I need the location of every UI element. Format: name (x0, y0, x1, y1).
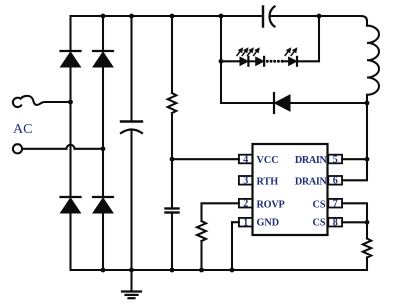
node fuse / bridge left (68, 100, 73, 105)
node AC / bridge right (101, 146, 106, 151)
wire VCC dropper column (171, 16, 173, 93)
diode D5 (freewheel, pointing left) (274, 93, 290, 113)
pin 8 box (328, 218, 342, 227)
svg-text:CS: CS (312, 217, 325, 228)
wire right bridge column (102, 16, 104, 51)
node top bus / dropper (170, 14, 175, 19)
diode D1 (bridge upper-left) (61, 51, 81, 67)
pin 6 box (328, 176, 342, 185)
pin 7 box (328, 199, 342, 208)
wire pin7 to CS bus (342, 203, 367, 222)
LED LED1 (240, 57, 248, 66)
wire freewheel branch vertical (220, 61, 222, 103)
capacitor C2 (series output cap, flat plate) (262, 7, 264, 27)
wire CS junction down (366, 222, 368, 238)
wire freewheel row right (290, 102, 367, 104)
wire VCC to pin 4 (172, 158, 239, 160)
node bottom / bridge right (101, 268, 106, 273)
svg-text:ROVP: ROVP (257, 199, 285, 210)
wire left bridge column (69, 16, 71, 51)
pin 5 box (328, 155, 342, 164)
wire (248, 60, 255, 62)
svg-text:3: 3 (243, 176, 248, 187)
diode D4 (bridge lower-right) (93, 197, 113, 213)
wire AC lower to bridge with hop over left column (22, 145, 103, 149)
node bottom / ground (129, 268, 134, 273)
svg-text:6: 6 (333, 176, 338, 187)
node VCC tap (170, 157, 175, 162)
ground (122, 270, 141, 298)
node top bus / LED return (317, 14, 322, 19)
wire pin5 to bus (342, 158, 367, 160)
wire pin6 to bus (342, 159, 367, 180)
pin 1 box (239, 218, 253, 227)
wire LED branch vertical from top bus (220, 16, 222, 61)
wire top bus left segment (71, 15, 264, 17)
svg-text:VCC: VCC (257, 155, 279, 166)
AC terminal lower (13, 144, 22, 153)
node inductor / freewheel (365, 101, 370, 106)
svg-text:RTH: RTH (257, 176, 279, 187)
node bottom / GND pin (230, 268, 235, 273)
svg-text:2: 2 (243, 199, 248, 210)
wire GND pin branch (232, 222, 239, 270)
capacitor C1 (bulk electrolytic) (121, 122, 142, 134)
node CS tie (365, 220, 370, 225)
resistor R2 (ROVP) (197, 221, 206, 241)
op-amp U1 body (253, 144, 328, 235)
resistor R3 (CS sense) (363, 239, 371, 258)
wire pin8 to CS bus (342, 221, 367, 223)
node drain tie (365, 157, 370, 162)
svg-text:7: 7 (333, 199, 338, 210)
LED emission arrows (235, 46, 299, 56)
capacitor C2 curved plate (270, 7, 275, 27)
wire LED row end up to top bus (297, 16, 319, 61)
svg-text:8: 8 (333, 218, 338, 229)
diode D3 (bridge lower-left) (61, 197, 81, 213)
AC terminal upper with fuse F1 (13, 96, 71, 107)
svg-text:AC: AC (13, 122, 32, 137)
svg-text:4: 4 (243, 154, 248, 165)
wire freewheel row left (221, 102, 274, 104)
svg-text:GND: GND (257, 217, 280, 228)
capacitor C3 (VCC bypass) (166, 209, 179, 213)
svg-text:5: 5 (333, 154, 338, 165)
pin 4 box (239, 155, 253, 164)
node bottom / ROVP resistor (199, 268, 204, 273)
node top bus / LED branch (219, 14, 224, 19)
wire bottom bus (71, 269, 368, 271)
node LED row split (219, 59, 224, 64)
node top bus / bulk cap (129, 14, 134, 19)
svg-text:1: 1 (243, 218, 248, 229)
wire bulk cap column (130, 16, 132, 122)
node bottom / bypass cap (170, 268, 175, 273)
pin 2 box (239, 199, 253, 208)
wire top bus right segment (271, 16, 368, 26)
svg-text:DRAIN: DRAIN (295, 155, 328, 166)
pin 3 box (239, 176, 253, 185)
LED LED2 (256, 57, 264, 66)
wire dotted continuation (266, 60, 284, 63)
LED LED3 (289, 57, 297, 66)
resistor R1 (VCC dropper) (168, 93, 177, 113)
node top bus / bridge right (101, 14, 106, 19)
svg-text:DRAIN: DRAIN (295, 176, 328, 187)
wire ROVP branch (202, 203, 239, 221)
inductor L1 (367, 26, 379, 103)
wire drain bus (366, 103, 368, 159)
diode D2 (bridge upper-right) (93, 51, 113, 67)
wire LED row start (221, 60, 240, 62)
wire (284, 60, 289, 62)
svg-text:CS: CS (312, 199, 325, 210)
